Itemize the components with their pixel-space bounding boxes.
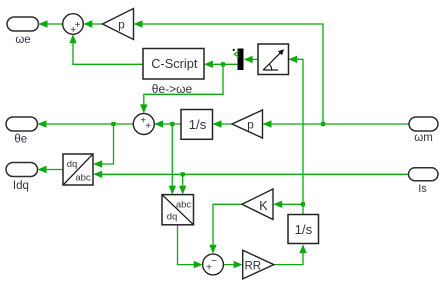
arrowhead into sum2 right — [154, 120, 163, 127]
port ωe — [7, 17, 39, 31]
svg-text:+: + — [145, 121, 151, 132]
node: junction on 1/s2 output line (K branch) — [301, 202, 305, 206]
wire: branch up from ωm line to p1 input — [135, 24, 323, 124]
svg-text:+: + — [70, 25, 76, 36]
svg-text:p: p — [247, 118, 254, 132]
svg-text:θe->ωe: θe->ωe — [152, 82, 193, 96]
wire: dq/abc output to Idq port — [39, 169, 63, 171]
arrowhead into θe port — [38, 120, 47, 127]
svg-text:RR: RR — [244, 261, 261, 273]
integrator 1/s (U4) — [181, 110, 213, 140]
wire: branch down to abc/dq second top pin — [182, 174, 184, 193]
wire: branch down to dq/abc theta input — [95, 124, 114, 164]
svg-text:p: p — [118, 18, 125, 32]
arrowhead into sum3 left — [194, 261, 203, 268]
arrowhead into Idq port — [38, 166, 47, 173]
port Idq — [6, 163, 38, 177]
demux (mux bar) — [238, 49, 244, 71]
arrowhead into dq/abc bottom pin — [93, 171, 102, 178]
demux unconnected output arrow — [234, 51, 239, 57]
svg-text:1/s: 1/s — [295, 222, 313, 237]
wire: branch down to abc/dq first top pin — [171, 124, 173, 193]
sum U1 (ωe sum) — [63, 14, 84, 35]
wire: RR output to 1/s2 bottom input — [274, 246, 303, 265]
diagonal — [163, 195, 193, 224]
gain K — [242, 189, 273, 220]
arrowhead into ωe port — [39, 20, 48, 27]
sum U7 (current error sum) — [203, 254, 224, 275]
arrowhead into sum3 top — [209, 245, 216, 254]
svg-text:abc: abc — [176, 200, 192, 211]
transform abc->dq (U6) — [162, 195, 194, 225]
sum U3 (θe sum) — [133, 114, 154, 135]
wire: sum2 output to θe port — [39, 123, 133, 125]
gain RR — [243, 250, 274, 279]
wire: branch down to sum2 top — [144, 64, 223, 112]
arrowhead into angle block — [288, 56, 297, 63]
wire: angle block output to demux — [245, 58, 258, 60]
node: junction on demux-to-C-Script wire — [221, 62, 225, 66]
arrowhead into 1/s1 — [213, 120, 222, 127]
wire: p2 output to 1/s1 input — [214, 123, 232, 125]
svg-text:C-Script: C-Script — [151, 56, 198, 71]
wire: demux output to C-Script input — [206, 63, 238, 65]
integrator 1/s (U8) — [288, 215, 319, 244]
gain p1 — [103, 9, 134, 40]
svg-text:1/s: 1/s — [189, 117, 207, 132]
wire: 1/s2 output up to angle block input — [290, 59, 304, 214]
arrowhead into RR — [234, 261, 243, 268]
svg-text:ωm: ωm — [414, 132, 433, 144]
svg-text:−: − — [211, 256, 217, 267]
node: junction on 1/s1-sum2 wire — [170, 122, 174, 126]
wire: sum3 output to RR input — [223, 264, 241, 266]
svg-text:dq: dq — [67, 159, 78, 170]
gain p2 — [232, 110, 263, 138]
node: junction on ωm line — [321, 122, 325, 126]
arrowhead into K — [273, 201, 282, 208]
wire: branch to K input — [275, 203, 303, 205]
svg-text:dq: dq — [167, 212, 178, 223]
arrowhead into sum2 top — [140, 104, 147, 113]
angle block (atan2) — [258, 44, 289, 75]
transform dq->abc (U5) — [63, 154, 93, 185]
wire: 1/s1 output to sum2 input — [156, 123, 182, 125]
wire: K output to sum3 top — [213, 204, 242, 252]
C-Script U2 — [143, 49, 204, 80]
node: junction on Is line — [181, 172, 185, 176]
arrowhead into abc/dq pin1 — [169, 186, 176, 195]
arrowhead into sum1 right — [83, 20, 92, 27]
svg-text:+: + — [206, 262, 212, 273]
svg-text:θe: θe — [14, 133, 27, 145]
diagonal — [64, 155, 93, 185]
svg-text:Is: Is — [418, 183, 427, 195]
wire: C-Script output to sum1 bottom — [73, 36, 143, 64]
wire: Is to dq/abc abc input — [95, 173, 410, 175]
arrowhead into sum1 bottom — [69, 34, 76, 43]
svg-text:ωe: ωe — [15, 34, 30, 46]
svg-text:Idq: Idq — [13, 180, 29, 192]
node: junction on θe line — [111, 122, 115, 126]
wire: p1 output to sum1 — [85, 23, 103, 25]
arrowhead into 1/s2 bottom — [299, 244, 306, 253]
svg-text:K: K — [259, 198, 268, 213]
wire: ωm to p2 input — [264, 123, 409, 125]
port ωm — [409, 117, 438, 131]
arrowhead into C-Script — [204, 61, 213, 68]
arrowhead into p1 — [134, 20, 143, 27]
arrowhead into abc/dq pin2 — [179, 186, 186, 195]
port θe — [6, 117, 38, 131]
arrowhead into demux bar — [244, 56, 253, 63]
arrowhead into dq/abc top pin — [93, 160, 102, 167]
port Is — [409, 168, 439, 181]
svg-text:abc: abc — [75, 173, 91, 184]
arrowhead into p2 — [263, 120, 272, 127]
dot above demux — [233, 49, 235, 51]
wire: abc/dq output to sum3 left — [178, 225, 202, 265]
wire: sum1 output to ωe port — [40, 23, 63, 25]
